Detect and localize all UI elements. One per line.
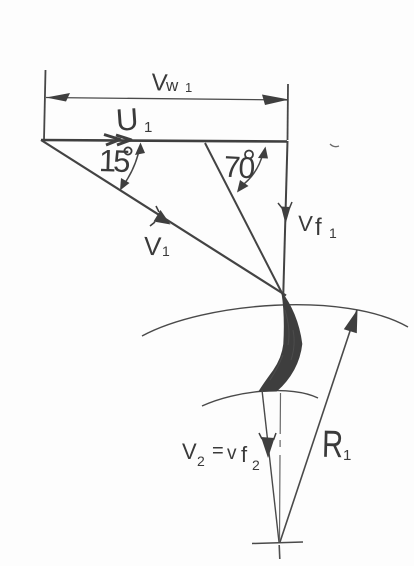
radius vector R1 <box>280 310 357 542</box>
blade crescent <box>259 293 302 392</box>
arrowhead V2 on line A <box>259 433 276 458</box>
top arc (rotor outer circle) <box>142 305 408 336</box>
label U1 <box>115 101 153 137</box>
vector U1 baseline <box>41 140 287 142</box>
center cross horizontal <box>252 542 303 544</box>
arrowhead left of Vw1 <box>46 93 70 102</box>
double chevron arrow on U1 <box>104 135 131 146</box>
label V2 = Vf2 <box>182 439 260 473</box>
svg-text:f: f <box>241 442 248 467</box>
svg-text:U: U <box>115 101 140 137</box>
svg-text:v: v <box>227 443 237 464</box>
label R1 <box>321 424 351 467</box>
svg-text:V: V <box>298 211 314 237</box>
label Vf1 <box>298 211 337 241</box>
arrowhead right of Vw1 <box>262 95 289 106</box>
arc for 70 deg angle <box>240 153 263 187</box>
svg-text:1: 1 <box>144 119 152 136</box>
arrowhead top of 15 deg arc <box>135 143 145 156</box>
svg-text:V: V <box>182 439 197 464</box>
radius guide line A (with V2 arrow) <box>262 390 279 542</box>
label Vw1 <box>151 69 193 97</box>
arrowhead on Vf1 <box>278 202 292 224</box>
extension line right <box>287 84 290 140</box>
line of 70 deg (relative velocity direction) <box>205 143 284 297</box>
arc for 15 deg angle <box>122 146 140 187</box>
svg-text:1: 1 <box>343 447 351 464</box>
radius guide line B (center line) <box>280 393 281 542</box>
label 70 deg <box>223 151 255 186</box>
label 15 deg <box>98 143 131 179</box>
svg-text:1: 1 <box>185 80 192 95</box>
vector Vf1 <box>283 141 287 297</box>
arrowhead top of 70 deg arc <box>258 147 268 159</box>
dimension line Vw1 <box>46 98 288 101</box>
extension line left <box>44 70 46 140</box>
svg-text:1: 1 <box>329 225 337 241</box>
svg-text:f: f <box>315 214 322 241</box>
arrowhead on V1 <box>150 206 171 226</box>
arrowhead bottom of 70 deg arc <box>237 180 249 193</box>
bottom arc (rotor inner circle) <box>202 391 318 406</box>
stray pencil dash <box>330 144 339 147</box>
arrowhead on R1 <box>344 310 358 334</box>
svg-text:V: V <box>143 231 162 262</box>
svg-text:70: 70 <box>223 151 255 186</box>
label V1 <box>143 231 170 262</box>
vector V1 <box>41 140 286 296</box>
center cross vertical tick <box>278 545 281 559</box>
svg-text:1: 1 <box>162 243 170 259</box>
svg-text:R: R <box>321 424 343 467</box>
svg-text:=: = <box>212 440 224 462</box>
svg-text:2: 2 <box>252 457 260 473</box>
svg-text:w: w <box>165 76 179 95</box>
arrowhead bottom of 15 deg arc <box>120 178 130 191</box>
svg-text:2: 2 <box>197 453 205 469</box>
